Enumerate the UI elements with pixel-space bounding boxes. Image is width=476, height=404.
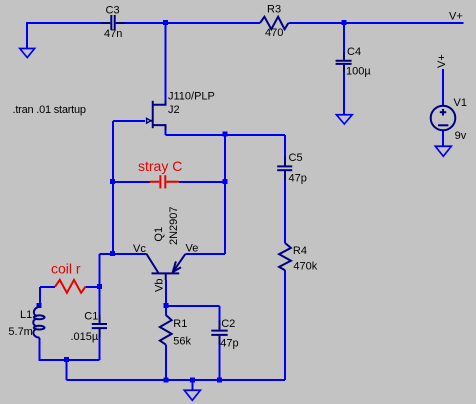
svg-text:R1: R1 — [173, 318, 187, 330]
transistor J2 gate arrow — [147, 118, 153, 123]
ground top left — [20, 49, 35, 58]
wire J2 gate — [113, 120, 145, 122]
wire left vertical — [112, 121, 114, 254]
svg-text:9v: 9v — [455, 130, 467, 142]
resistor R1 — [160, 315, 172, 345]
transistor Q1 emitter arrow — [173, 261, 181, 272]
svg-text:R3: R3 — [267, 4, 281, 16]
svg-text:47p: 47p — [289, 173, 307, 185]
node junction Vb — [163, 303, 168, 308]
wire tank link down — [99, 254, 101, 287]
node junction bus R1 — [163, 377, 168, 382]
node junction L1 pin — [37, 303, 42, 308]
resistor R4 — [279, 243, 291, 270]
svg-text:Vc: Vc — [133, 243, 146, 255]
wire bottom bus — [66, 379, 285, 381]
wire coil r left lead — [40, 286, 55, 288]
svg-text:Vb: Vb — [154, 279, 166, 292]
wire top bus left of C3 — [26, 22, 101, 24]
svg-text:56k: 56k — [173, 336, 191, 348]
wire V1 bottom — [442, 130, 444, 146]
capacitor C5 — [277, 157, 292, 181]
wire C5 top — [284, 135, 286, 157]
wire C1 top — [99, 287, 101, 315]
wire L1 top — [39, 287, 41, 304]
svg-text:J110/PLP: J110/PLP — [168, 91, 215, 103]
ground under C4 — [336, 115, 352, 124]
transistor Q1 emitter — [173, 254, 186, 273]
node junction bus C2 — [217, 377, 222, 382]
wire C2 row — [166, 305, 220, 307]
node junction tank bottom — [64, 357, 69, 362]
svg-text:470: 470 — [265, 27, 283, 39]
transistor J2 drain lead — [153, 101, 166, 105]
wire top bus C3 to R3 — [125, 22, 260, 24]
wire top bus R3 to V+ — [288, 22, 463, 24]
svg-text:5.7m: 5.7m — [8, 326, 32, 338]
ground bottom — [184, 390, 200, 400]
svg-text:V1: V1 — [454, 97, 467, 109]
wire collector row — [113, 253, 146, 255]
svg-text:V+: V+ — [449, 11, 463, 23]
svg-text:47p: 47p — [220, 338, 238, 350]
svg-text:Ve: Ve — [186, 243, 199, 255]
wire tank drop — [65, 360, 67, 380]
svg-text:C5: C5 — [289, 152, 303, 164]
wire C1 bottom — [99, 338, 101, 360]
transistor J2 channel bar — [152, 101, 154, 128]
svg-text:coil r: coil r — [51, 261, 81, 277]
wire C4 bottom — [343, 73, 345, 115]
transistor Q1 collector — [146, 254, 158, 273]
svg-text:.015µ: .015µ — [71, 331, 99, 343]
wire R4 bottom — [284, 270, 286, 380]
inductor L1 — [33, 307, 44, 338]
svg-text:.tran .01 startup: .tran .01 startup — [13, 104, 86, 116]
wire stray C left — [113, 181, 150, 183]
transistor Q1 base lead — [165, 274, 167, 280]
wire V1 top — [442, 69, 444, 106]
wire J2 drain — [165, 23, 167, 104]
wire bottom ground stub — [191, 380, 193, 390]
svg-text:C3: C3 — [106, 5, 120, 17]
svg-text:J2: J2 — [168, 104, 180, 116]
node junction top C3-J2 — [163, 20, 168, 25]
node junction Vc — [110, 251, 115, 256]
svg-text:V+: V+ — [436, 54, 448, 68]
node junction stray C right — [223, 179, 228, 184]
wire C4 top — [343, 23, 345, 53]
wire R1 top — [165, 306, 167, 315]
capacitor C1 — [92, 315, 107, 338]
svg-text:100µ: 100µ — [346, 66, 371, 78]
resistor coil r — [55, 280, 85, 293]
wire J2 source down — [165, 127, 167, 135]
ground under V1 — [435, 146, 451, 156]
wire source row — [166, 134, 286, 136]
transistor J2 source lead — [153, 125, 166, 130]
voltage source V1 — [431, 106, 456, 131]
svg-text:L1: L1 — [20, 309, 32, 321]
node junction bus ground — [190, 377, 195, 382]
svg-text:C4: C4 — [347, 46, 361, 58]
svg-text:47n: 47n — [104, 28, 122, 40]
capacitor C3 — [101, 15, 125, 30]
svg-text:Q1: Q1 — [153, 227, 165, 242]
wire emitter row — [186, 253, 226, 255]
wire L1 bottom — [39, 338, 41, 360]
wire C5 to R4 — [284, 180, 286, 243]
wire Q1 base — [165, 280, 167, 306]
wire tank bottom — [39, 359, 100, 361]
svg-text:2N2907: 2N2907 — [168, 206, 180, 245]
svg-text:C2: C2 — [221, 318, 235, 330]
svg-text:stray C: stray C — [138, 158, 182, 174]
capacitor stray C — [150, 175, 179, 188]
svg-text:C1: C1 — [84, 311, 98, 323]
capacitor C4 — [336, 53, 352, 73]
wire C2 top — [219, 306, 221, 321]
wire middle vertical — [224, 135, 226, 254]
wire tank link — [100, 253, 113, 255]
transistor Q1 base bar — [152, 272, 180, 274]
wire coil r right lead — [85, 286, 99, 288]
wire ground stub top left — [26, 23, 28, 49]
node junction source row — [223, 132, 228, 137]
svg-text:470k: 470k — [293, 261, 317, 273]
wire C2 bottom — [219, 345, 221, 381]
svg-text:R4: R4 — [293, 245, 307, 257]
node junction coil r right — [97, 284, 102, 289]
wire stray C right — [179, 181, 225, 183]
node junction stray C left — [110, 179, 115, 184]
capacitor C2 — [211, 321, 227, 345]
node junction top R3-C4 — [342, 20, 347, 25]
resistor R3 — [260, 17, 288, 29]
wire R1 bottom — [165, 345, 167, 380]
